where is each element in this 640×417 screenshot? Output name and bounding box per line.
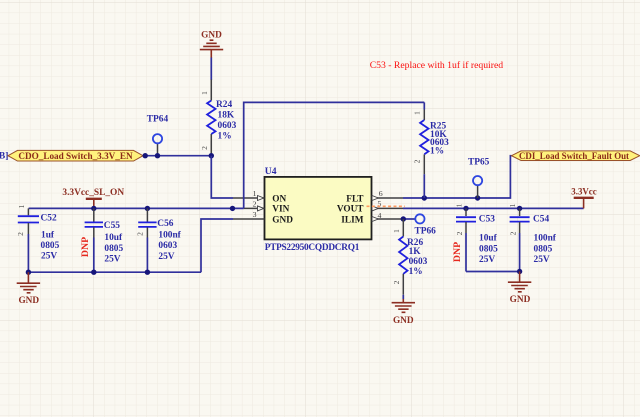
- svg-text:R24: R24: [216, 100, 232, 110]
- junction C56 bottom: [145, 270, 150, 275]
- svg-text:1: 1: [413, 111, 422, 115]
- junction R26 top: [401, 216, 406, 221]
- svg-text:1%: 1%: [218, 132, 232, 142]
- svg-text:0603: 0603: [218, 121, 237, 131]
- svg-text:1uf: 1uf: [41, 231, 55, 241]
- test point TP65: [468, 158, 490, 199]
- svg-text:TP65: TP65: [468, 158, 490, 168]
- svg-text:C53: C53: [479, 214, 495, 224]
- junction R24 bottom: [209, 153, 214, 158]
- svg-text:25V: 25V: [158, 252, 174, 262]
- junction C53 top: [463, 206, 468, 211]
- svg-text:25V: 25V: [41, 252, 57, 262]
- svg-text:1K: 1K: [409, 247, 422, 257]
- pin 4: [372, 218, 404, 220]
- junction 3.3Vcc_SL_ON / C55: [91, 206, 96, 211]
- svg-text:3.3Vcc: 3.3Vcc: [571, 187, 596, 197]
- test point TP64: [147, 115, 169, 156]
- svg-text:PTPS22950CQDDCRQ1: PTPS22950CQDDCRQ1: [265, 243, 360, 253]
- wire ILIM to TP66: [403, 218, 416, 220]
- svg-text:1: 1: [253, 189, 257, 198]
- junction at port tip: [143, 153, 148, 158]
- svg-text:2: 2: [253, 200, 257, 209]
- resistor R24: [200, 80, 237, 156]
- wire vertical VIN to R25 feed: [244, 102, 425, 208]
- pin 2: [244, 207, 265, 209]
- svg-text:0603: 0603: [409, 257, 428, 267]
- power port 3.3Vcc_SL_ON: [62, 188, 124, 208]
- svg-text:2: 2: [455, 231, 464, 235]
- junction C54 top: [517, 206, 522, 211]
- capacitor C53: [452, 203, 498, 271]
- junction TP64: [155, 153, 160, 158]
- orange marker on pin 5: [367, 205, 406, 207]
- svg-text:GND: GND: [18, 296, 39, 306]
- svg-text:GND: GND: [272, 215, 293, 225]
- svg-text:0805: 0805: [41, 241, 60, 251]
- svg-text:C52: C52: [41, 214, 57, 224]
- svg-text:2: 2: [16, 232, 25, 236]
- wire GND to R24: [210, 58, 212, 81]
- capacitor C52: [16, 204, 59, 272]
- power port GND (left): [17, 272, 40, 306]
- svg-text:1: 1: [455, 203, 464, 207]
- junction VIN pin2: [230, 206, 235, 211]
- svg-text:GND: GND: [393, 316, 414, 326]
- port CDO_Load Switch_3.3V_EN: [8, 150, 143, 161]
- svg-text:1: 1: [200, 91, 209, 95]
- junction TP65: [475, 195, 480, 200]
- svg-text:10uf: 10uf: [479, 233, 498, 243]
- svg-text:ON: ON: [272, 194, 286, 204]
- wire R24 to pin1 ON: [211, 156, 233, 198]
- svg-text:[3B]: [3B]: [0, 151, 8, 161]
- svg-text:C54: C54: [533, 214, 549, 224]
- test point TP66: [415, 214, 437, 236]
- svg-text:VIN: VIN: [272, 205, 289, 215]
- svg-text:1%: 1%: [430, 147, 444, 157]
- pin 1: [233, 197, 265, 199]
- junction C56 top: [145, 206, 150, 211]
- svg-text:C53 - Replace with 1uf if requ: C53 - Replace with 1uf if required: [370, 60, 504, 71]
- resistor R25: [413, 102, 450, 198]
- svg-text:2: 2: [413, 159, 422, 163]
- svg-text:100nf: 100nf: [534, 233, 557, 243]
- svg-text:0805: 0805: [534, 245, 553, 255]
- svg-text:10uf: 10uf: [104, 233, 123, 243]
- junction C55 bottom: [91, 270, 96, 275]
- svg-text:2: 2: [508, 231, 517, 235]
- junction C54 bottom: [517, 269, 522, 274]
- IC U4: [233, 166, 403, 253]
- svg-text:CDO_Load Switch_3.3V_EN: CDO_Load Switch_3.3V_EN: [18, 151, 133, 161]
- power port GND (top): [200, 31, 223, 59]
- svg-text:100nf: 100nf: [158, 230, 181, 240]
- svg-text:3: 3: [253, 210, 257, 219]
- svg-text:C55: C55: [104, 221, 120, 231]
- capacitor C54: [508, 203, 557, 271]
- svg-text:VOUT: VOUT: [337, 205, 364, 215]
- svg-text:FLT: FLT: [346, 194, 364, 204]
- svg-text:C56: C56: [157, 219, 173, 229]
- svg-text:2: 2: [136, 232, 145, 236]
- wire VIN rail: [29, 207, 244, 209]
- svg-text:U4: U4: [265, 166, 277, 177]
- svg-text:25V: 25V: [104, 255, 120, 265]
- wire bottom rail right: [466, 271, 520, 273]
- wire bottom rail left: [28, 271, 201, 273]
- wire FLT to port: [403, 156, 512, 198]
- svg-text:18K: 18K: [218, 111, 235, 121]
- pin 3: [233, 218, 265, 220]
- junction C52 bottom: [26, 270, 31, 275]
- svg-text:CDI_Load Switch_Fault Out: CDI_Load Switch_Fault Out: [519, 151, 629, 161]
- svg-text:1: 1: [392, 229, 401, 233]
- capacitor C55: [80, 208, 123, 272]
- svg-text:25V: 25V: [534, 255, 550, 265]
- svg-text:3.3Vcc_SL_ON: 3.3Vcc_SL_ON: [62, 188, 124, 198]
- svg-text:1: 1: [508, 203, 517, 207]
- svg-text:25V: 25V: [479, 255, 495, 265]
- svg-text:TP66: TP66: [415, 226, 437, 236]
- svg-text:1%: 1%: [409, 267, 423, 277]
- capacitor C56: [136, 208, 182, 272]
- svg-text:1: 1: [17, 204, 26, 208]
- port CDI_Load Switch_Fault Out: [512, 151, 640, 161]
- wire port to R24: [143, 155, 211, 157]
- svg-text:DNP: DNP: [80, 237, 91, 257]
- svg-text:GND: GND: [201, 31, 222, 41]
- pin 5: [372, 207, 404, 209]
- power port GND (bottom right): [508, 272, 531, 305]
- resistor R26: [392, 219, 428, 299]
- svg-text:GND: GND: [510, 295, 531, 305]
- svg-text:TP64: TP64: [147, 115, 169, 125]
- pin 6: [372, 197, 404, 199]
- wire GND pin3 route: [201, 219, 233, 272]
- power port GND (under R26): [392, 299, 415, 326]
- svg-text:ILIM: ILIM: [341, 215, 363, 225]
- svg-text:2: 2: [392, 280, 401, 284]
- junction R25 bottom: [422, 195, 427, 200]
- svg-text:0603: 0603: [158, 241, 177, 251]
- wire VOUT rail: [403, 207, 584, 209]
- svg-text:2: 2: [200, 146, 209, 150]
- svg-text:0805: 0805: [104, 244, 123, 254]
- svg-text:6: 6: [379, 189, 383, 198]
- svg-text:DNP: DNP: [452, 242, 463, 262]
- power port 3.3Vcc: [571, 187, 596, 209]
- svg-text:0805: 0805: [479, 245, 498, 255]
